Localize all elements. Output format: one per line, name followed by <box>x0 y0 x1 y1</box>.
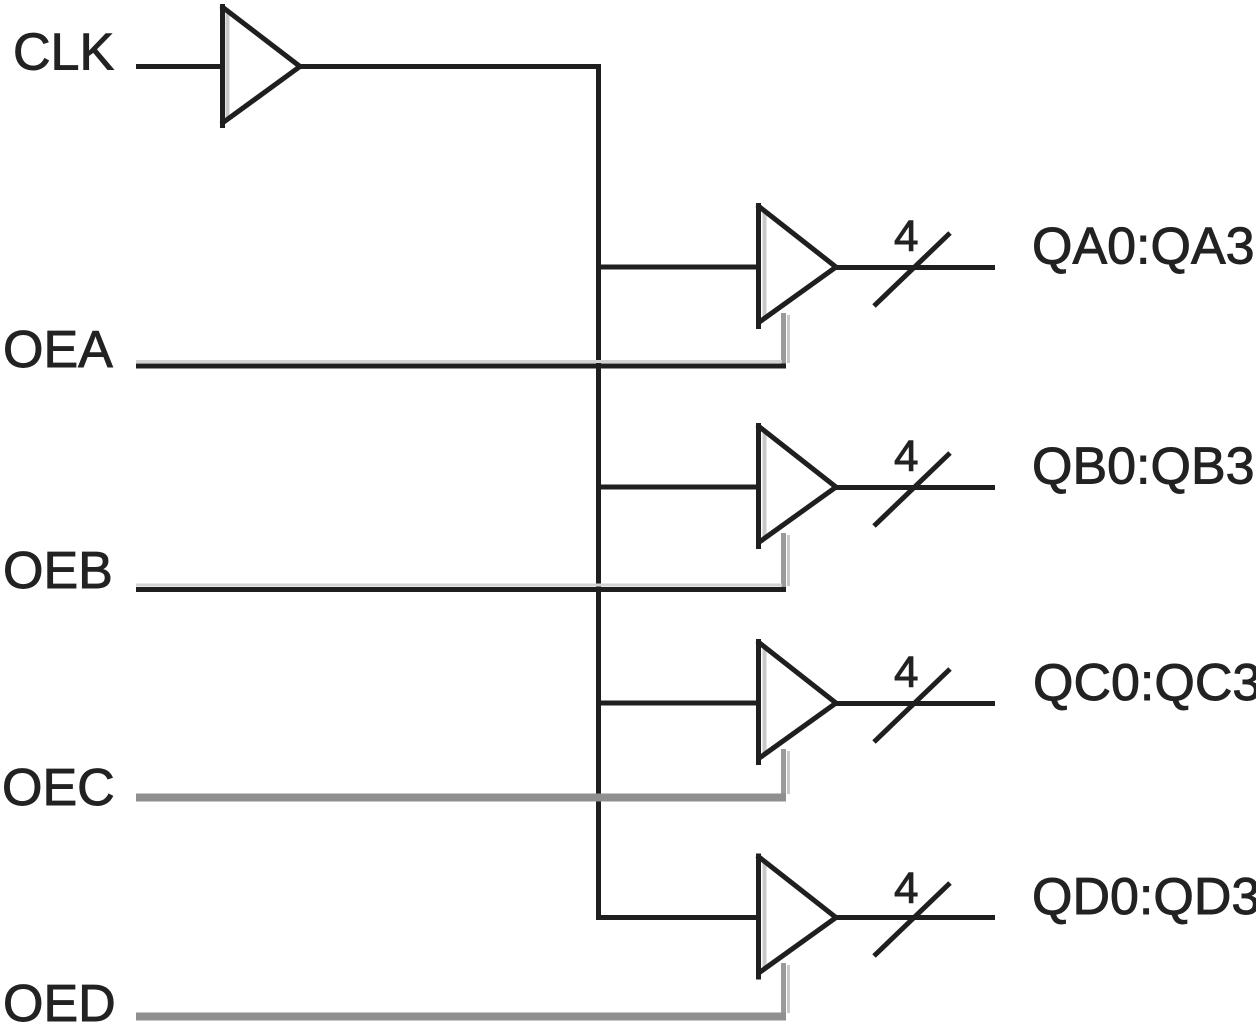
svg-text:CLK: CLK <box>13 24 114 82</box>
wire CLK input to buffer U1 <box>136 64 222 69</box>
buffer U5 <box>757 854 836 980</box>
svg-text:4: 4 <box>894 864 918 913</box>
wire U4 output QC <box>835 701 995 706</box>
svg-text:QB0:QB3: QB0:QB3 <box>1032 438 1255 496</box>
wire clock bus (vertical net) <box>596 64 601 920</box>
svg-text:OED: OED <box>3 975 116 1023</box>
wire OEA to U2 enable pin (vertical) <box>784 313 789 366</box>
wire branch to buffer U5 <box>596 915 758 920</box>
svg-text:OEA: OEA <box>3 321 113 379</box>
wire OEB to U3 enable pin (vertical) <box>784 533 789 589</box>
svg-text:OEB: OEB <box>3 542 113 600</box>
wire OEB net (horizontal) <box>136 585 786 590</box>
svg-text:QD0:QD3: QD0:QD3 <box>1032 868 1256 926</box>
buffer U3 <box>757 423 836 549</box>
bus-width slash QD <box>874 883 950 956</box>
svg-text:OEC: OEC <box>2 759 115 817</box>
buffer U4 <box>757 639 836 765</box>
svg-text:4: 4 <box>894 648 918 697</box>
wire U3 output QB <box>835 485 995 490</box>
wire U2 output QA <box>835 265 995 270</box>
wire OEC net (horizontal, gray) <box>136 794 786 802</box>
wire branch to buffer U4 <box>596 701 758 706</box>
bus-width slash QB <box>874 453 950 526</box>
buffer U1 (clock driver) <box>221 4 300 128</box>
buffer U2 <box>757 203 836 329</box>
wire OEA net (horizontal) <box>136 362 786 367</box>
wire branch to buffer U3 <box>596 485 758 490</box>
bus-width slash QC <box>874 669 950 742</box>
svg-text:QA0:QA3: QA0:QA3 <box>1032 218 1255 276</box>
wire OEC to U4 enable pin (vertical) <box>784 749 789 797</box>
svg-text:4: 4 <box>894 212 918 261</box>
svg-text:QC0:QC3: QC0:QC3 <box>1033 654 1256 712</box>
wire U5 output QD <box>835 915 995 920</box>
wire OED net (horizontal, gray) <box>136 1013 786 1021</box>
bus-width slash QA <box>874 233 950 306</box>
wire branch to buffer U2 <box>596 265 758 270</box>
wire OED to U5 enable pin (vertical, gray) <box>784 963 789 1016</box>
wire U1 output to clock bus <box>299 64 601 69</box>
svg-text:4: 4 <box>894 432 918 481</box>
